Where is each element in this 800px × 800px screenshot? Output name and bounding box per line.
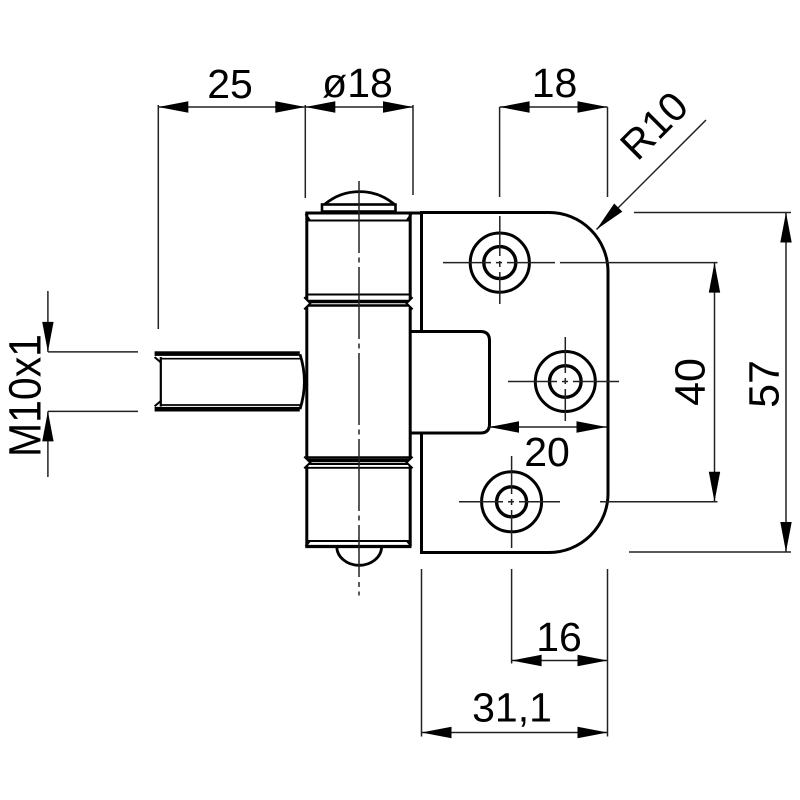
svg-text:25: 25	[207, 61, 253, 107]
svg-text:31,1: 31,1	[472, 685, 552, 731]
svg-text:ø18: ø18	[322, 60, 393, 106]
svg-text:M10x1: M10x1	[1, 334, 51, 457]
svg-text:40: 40	[667, 358, 715, 406]
svg-text:18: 18	[532, 60, 578, 106]
svg-text:57: 57	[741, 360, 789, 408]
svg-text:16: 16	[536, 614, 582, 660]
svg-text:20: 20	[524, 429, 570, 475]
